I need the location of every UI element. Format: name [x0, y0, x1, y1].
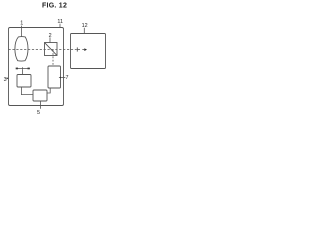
panel centre tick [21, 67, 23, 70]
svg-text:FIG. 12: FIG. 12 [42, 2, 67, 9]
wire control box to source box [47, 88, 50, 93]
svg-text:7: 7 [66, 75, 69, 81]
svg-text:3: 3 [4, 77, 7, 83]
leader for 11 [59, 24, 61, 28]
beam splitter prism 2 [45, 43, 58, 56]
panel left cap [16, 68, 18, 70]
leader for 5 [40, 106, 42, 109]
lens 1 [15, 37, 28, 61]
enclosure box 11 [9, 28, 64, 106]
leader for 12 [83, 28, 85, 34]
svg-text:5: 5 [37, 110, 40, 116]
optical axis (dashed) [9, 49, 77, 51]
display panel (thin element) [16, 68, 30, 70]
source box (tall) [48, 66, 61, 88]
axis continuation [77, 49, 80, 51]
image plane tick inside box 12 [76, 47, 78, 51]
wire driver box to control box [21, 87, 33, 95]
arrow for label 3 [5, 77, 8, 79]
external box 12 [71, 34, 106, 69]
panel right cap [28, 68, 30, 70]
wire control box to bottom edge [40, 101, 42, 106]
stub panel to driver box [21, 70, 23, 75]
reflected axis (dashed vertical) [52, 50, 54, 66]
arrowhead on axis [84, 48, 87, 51]
arrow for label 7 [61, 77, 65, 79]
prism diagonal [45, 43, 57, 55]
control box (bottom) [33, 90, 47, 101]
leader for 1 [21, 26, 23, 37]
leader for 2 [49, 37, 51, 42]
driver box (left) [17, 75, 31, 88]
